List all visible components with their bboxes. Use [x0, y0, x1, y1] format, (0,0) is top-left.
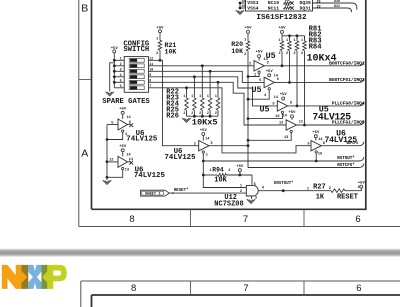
- svg-text:6: 6: [355, 214, 360, 225]
- R21 label: [165, 42, 177, 49]
- U5 gate B pin14: [274, 74, 279, 78]
- U5C enable wire: [248, 114, 282, 119]
- VSS junction wire: [239, 3, 241, 9]
- NXP logo P counter (white): [53, 271, 61, 276]
- 74LV125 label (gate2): [134, 172, 166, 180]
- junction VSS4: [239, 7, 242, 10]
- svg-text:2: 2: [293, 52, 295, 56]
- svg-text:D30: D30: [334, 0, 340, 3]
- wire ERSTOUT*: [258, 190, 331, 192]
- wire RESET* to U12: [169, 192, 246, 194]
- NXP logo X blue body with notches: [28, 265, 41, 289]
- svg-text:VSS4: VSS4: [247, 5, 258, 11]
- svg-text:2: 2: [191, 111, 193, 115]
- R21 pin 2: [156, 52, 158, 56]
- spare gates ground rail: [106, 125, 108, 181]
- svg-text:+5V: +5V: [256, 51, 264, 55]
- buffer U5A: [254, 61, 264, 71]
- svg-text:13: 13: [284, 136, 288, 140]
- R20 top wire: [247, 33, 249, 41]
- svg-text:R84: R84: [309, 44, 323, 52]
- page separator gray band: [0, 248, 400, 257]
- +5V for R27: [358, 181, 366, 188]
- buffer U6 gate2: [118, 156, 128, 167]
- net label RSTOUT*: [337, 156, 355, 161]
- wire enable rail vertical: [247, 51, 249, 168]
- spare branch arrow: [106, 92, 114, 96]
- svg-text:IS61SF12832: IS61SF12832: [256, 14, 307, 22]
- junction U5C enable: [247, 117, 250, 120]
- page1 outer thin border (left): [78, 0, 80, 227]
- junction U6g3 output: [247, 144, 250, 147]
- svg-text:10K: 10K: [284, 4, 289, 7]
- resistor R94: [218, 173, 227, 176]
- svg-text:2: 2: [120, 62, 122, 66]
- resistor R21: [158, 40, 162, 50]
- resistors R22-R26 bodies and taps: [183, 64, 219, 116]
- VSS3 pin wire: [240, 2, 246, 4]
- IC pin name VSS3: [247, 0, 258, 6]
- svg-text:1: 1: [207, 94, 209, 98]
- svg-text:1: 1: [215, 94, 217, 98]
- svg-text:+5V: +5V: [278, 27, 286, 31]
- page2 outer thin border (top): [81, 280, 400, 282]
- net label RSTCFG*: [337, 163, 355, 168]
- U12 ground wire: [251, 196, 253, 199]
- resistor R27: [331, 189, 345, 193]
- svg-text:1: 1: [278, 39, 280, 43]
- U6 gate3 pin14: [205, 137, 210, 141]
- page2 column label 7: [243, 283, 248, 294]
- label SWITCH: [123, 46, 149, 54]
- svg-text:6: 6: [356, 283, 361, 294]
- wire RSTOUT*: [203, 157, 364, 161]
- svg-text:10K: 10K: [231, 48, 243, 55]
- row label B: [81, 2, 88, 14]
- wire row4 to U5C input: [153, 77, 277, 106]
- IC name IS61SF12832: [256, 14, 307, 22]
- U5D pin11: [299, 121, 303, 125]
- buffer U5D: [286, 120, 296, 130]
- junction U6g1 enable: [106, 138, 109, 141]
- svg-text:1: 1: [199, 94, 201, 98]
- SHEET 1 flag: [141, 190, 170, 196]
- svg-text:PLLCFG1/IRQ5: PLLCFG1/IRQ5: [332, 120, 365, 126]
- U12 pin4: [262, 186, 265, 190]
- page1 column tick 7|6: [303, 209, 305, 226]
- RESET* label tick: [172, 192, 174, 194]
- R81-R84 top wire: [282, 33, 305, 38]
- labels R81-R84: [309, 26, 323, 52]
- label SPARE GATES: [102, 98, 150, 106]
- page2 inner thick border (left): [91, 295, 93, 307]
- U6g2 enable wire: [107, 170, 123, 178]
- U5 74LV125 label: [312, 104, 351, 122]
- svg-text:RSTOUT*: RSTOUT*: [337, 156, 355, 161]
- R27 pin1: [307, 187, 309, 191]
- svg-text:29: 29: [316, 5, 320, 9]
- U6g2 pin12: [109, 159, 113, 163]
- buffer U5C: [277, 101, 287, 111]
- U5 label (gate A): [266, 51, 276, 61]
- net label PLLCFG0/IRQ4: [332, 100, 365, 106]
- U5 label (gate B): [251, 85, 261, 95]
- svg-text:PLLCFG0/IRQ4: PLLCFG0/IRQ4: [332, 100, 365, 106]
- U5 label (gate C): [259, 105, 269, 115]
- svg-text:U5: U5: [259, 105, 269, 115]
- svg-text:SWITCH: SWITCH: [123, 46, 149, 54]
- page2 column tick 8|7: [190, 281, 192, 295]
- NXP logo N arrow showing through X (orange chevron): [21, 271, 27, 284]
- svg-text:VSS3: VSS3: [247, 0, 258, 6]
- svg-text:A: A: [81, 148, 88, 160]
- U5 gate D +5V: [288, 111, 296, 120]
- page1 outer thin border (bottom): [79, 226, 400, 228]
- labels R22-R26: [166, 89, 179, 121]
- U5C pin10: [275, 115, 279, 119]
- U12 gnd pin3: [255, 197, 257, 201]
- U6 gate2 pin14: [126, 153, 131, 157]
- NXP logo letter N (orange): [2, 265, 21, 289]
- U6g3 output wire: [209, 145, 248, 147]
- U12 pin2: [240, 190, 242, 194]
- U6g4 pin10: [318, 153, 322, 157]
- svg-text:DQ31: DQ31: [300, 5, 311, 11]
- VSS pin numbers: [242, 0, 246, 8]
- net label BOOTCFG1/IRQ3: [329, 77, 365, 83]
- R27 label: [313, 183, 326, 191]
- svg-text:1: 1: [240, 184, 242, 188]
- svg-text:RESET*: RESET*: [174, 188, 189, 193]
- U5D pin13: [284, 136, 288, 140]
- buffer U6 gate3: [199, 141, 209, 151]
- DQ31 pin number 29: [316, 5, 320, 9]
- R20 pin 2: [244, 53, 246, 57]
- NXP logo P bar showing through X (lime chevron): [42, 271, 47, 283]
- junction U5A enable: [247, 75, 250, 78]
- svg-text:1: 1: [286, 39, 288, 43]
- junction U6g2 enable: [106, 176, 109, 179]
- svg-text:1: 1: [307, 187, 309, 191]
- junction R94 +5V: [239, 174, 242, 177]
- svg-text:5: 5: [120, 79, 122, 83]
- junction VSS3: [239, 2, 242, 5]
- R94 wire left: [203, 174, 217, 176]
- svg-text:1: 1: [120, 57, 122, 61]
- U5 gate C pin14: [274, 96, 279, 100]
- U6g1 output X: [128, 123, 134, 127]
- U5B pin6: [277, 78, 279, 82]
- switch rockers: [129, 58, 144, 89]
- svg-text:12: 12: [279, 122, 283, 126]
- NXP logo P (lime): [47, 265, 66, 289]
- net label WDPCFG: [347, 141, 359, 145]
- resistor R20: [246, 41, 250, 51]
- svg-text:NC10: NC10: [268, 0, 279, 6]
- svg-text:NC11: NC11: [268, 5, 279, 11]
- svg-text:4: 4: [120, 73, 122, 77]
- svg-text:+5V: +5V: [266, 70, 274, 74]
- svg-text:1: 1: [244, 38, 246, 42]
- U5 gate B +5V: [266, 70, 274, 77]
- svg-text:11: 11: [149, 62, 153, 66]
- svg-text:3: 3: [255, 197, 257, 201]
- svg-text:RESET: RESET: [337, 193, 358, 201]
- switch bus junctions: [113, 59, 116, 84]
- junction R94 left: [202, 174, 205, 177]
- svg-text:74LV125: 74LV125: [325, 136, 358, 145]
- U6g3 enable wire: [203, 153, 246, 187]
- svg-text:10K: 10K: [214, 177, 227, 185]
- junction RSTOUT-U6g4en: [315, 160, 318, 163]
- switch S1 box: [124, 57, 148, 93]
- svg-text:R27: R27: [313, 183, 326, 191]
- svg-text:1: 1: [156, 38, 158, 42]
- wire row5 to U5D input: [153, 82, 286, 125]
- U6g4 pin9: [307, 142, 309, 146]
- net label D30: [334, 0, 340, 3]
- svg-text:2: 2: [228, 169, 230, 173]
- svg-text:2: 2: [329, 187, 331, 191]
- wire RSTCFG*: [248, 164, 364, 168]
- svg-text:2: 2: [240, 190, 242, 194]
- +5V for R81-R84: [278, 27, 286, 34]
- svg-text:1K: 1K: [316, 193, 325, 201]
- svg-text:11: 11: [299, 121, 303, 125]
- svg-text:2: 2: [249, 62, 251, 66]
- U6 gate4 pin14: [318, 138, 323, 142]
- svg-text:3: 3: [267, 61, 269, 65]
- U5D pin12: [279, 122, 283, 126]
- buffer U6 gate1: [118, 119, 128, 130]
- net label PLLCFG1/IRQ5: [332, 120, 365, 126]
- junction U6g2 input: [106, 160, 109, 163]
- label 10Kx5: [192, 117, 218, 127]
- page2 column tick 7|6: [303, 281, 305, 295]
- R21 bottom wire: [159, 50, 161, 60]
- U6 74LV125 label (gate4): [325, 129, 358, 145]
- svg-text:7: 7: [243, 283, 248, 294]
- U6g1 input wire: [107, 124, 118, 126]
- svg-text:1: 1: [254, 74, 256, 78]
- U12 pin5: [254, 183, 256, 187]
- svg-text:BOOTCFG1/IRQ3: BOOTCFG1/IRQ3: [329, 77, 365, 83]
- R22-R26 bottom common wire: [187, 115, 219, 117]
- spare gates ground: [103, 180, 111, 184]
- svg-text:8: 8: [131, 283, 136, 294]
- U12 pin1: [240, 184, 242, 188]
- R94 value 10K: [214, 177, 227, 185]
- U5B enable wire: [248, 90, 269, 99]
- svg-text:2: 2: [286, 52, 288, 56]
- R20 pin 1: [244, 38, 246, 42]
- svg-text:2: 2: [183, 111, 185, 115]
- buffer U6 gate4: [311, 141, 321, 151]
- svg-text:2: 2: [207, 111, 209, 115]
- U6g4 enable wire: [315, 153, 317, 161]
- U5C pin9: [272, 102, 274, 106]
- svg-text:8: 8: [129, 214, 134, 225]
- R27 value 1K: [316, 193, 325, 201]
- svg-text:9: 9: [272, 102, 274, 106]
- svg-text:SPARE GATES: SPARE GATES: [102, 98, 150, 106]
- U5B enable bubble: [268, 88, 270, 90]
- svg-text:2: 2: [358, 185, 360, 189]
- page1 column tick 8|7: [190, 209, 192, 226]
- U6g3 pin3: [210, 142, 212, 146]
- wire row3 to U5B input: [153, 71, 264, 82]
- U5B pin5: [259, 79, 261, 83]
- svg-text:30: 30: [242, 0, 246, 3]
- U6g2 pin13: [125, 169, 129, 173]
- IC pin name NC11: [268, 5, 279, 11]
- IC pin name VSS4: [247, 5, 258, 11]
- U5 gate D pin14: [282, 114, 287, 118]
- svg-text:6: 6: [277, 78, 279, 82]
- R94 wire right: [227, 174, 253, 176]
- VSS4 pin wire: [240, 7, 246, 9]
- page1 row divider A/B: [79, 79, 92, 81]
- label 10Kx4: [307, 54, 337, 65]
- svg-text:+5V: +5V: [244, 27, 252, 31]
- wire row2 to U5A input: [153, 65, 254, 67]
- IC pin name DQ31: [300, 5, 311, 11]
- 74LV125 label (gate3): [164, 154, 196, 162]
- U5 gate C +5V: [280, 93, 288, 101]
- svg-text:D31: D31: [334, 4, 340, 8]
- U5C enable bubble: [281, 111, 283, 113]
- U6 label (gate1): [136, 130, 145, 138]
- svg-text:7: 7: [149, 84, 151, 88]
- ground for VSS pins: [236, 10, 244, 14]
- svg-text:SHEET 1: SHEET 1: [145, 193, 161, 197]
- +5V for R21: [156, 27, 164, 33]
- svg-text:RSTCFG*: RSTCFG*: [337, 163, 355, 168]
- switch right pin stubs: [149, 57, 154, 89]
- svg-text:9: 9: [149, 73, 151, 77]
- +5V for R20: [244, 27, 252, 34]
- svg-text:2: 2: [301, 52, 303, 56]
- svg-text:10: 10: [149, 68, 153, 72]
- U5 gate A +5V: [256, 51, 264, 61]
- R94 label: [212, 166, 224, 173]
- IC pin name DQ30: [300, 0, 311, 6]
- svg-text:74LV125: 74LV125: [134, 172, 166, 180]
- svg-text:10K: 10K: [165, 49, 177, 56]
- row label A: [81, 148, 88, 160]
- svg-text:+5V: +5V: [288, 111, 296, 115]
- U6 gate1 pin14: [126, 116, 131, 120]
- wire BOOTCFG1/IRQ3: [274, 78, 364, 82]
- U12 label: [224, 194, 237, 202]
- U5 gate A pin14: [264, 58, 269, 62]
- ground for R22-R26: [182, 118, 190, 122]
- R21 value 10K: [165, 49, 177, 56]
- svg-text:1: 1: [301, 39, 303, 43]
- svg-text:1: 1: [183, 94, 185, 98]
- U6g3 pin2: [194, 143, 196, 147]
- NC11 resistor 10K with X: [284, 4, 294, 10]
- U6g4 pin8: [323, 142, 325, 146]
- U6 label (gate3): [174, 148, 183, 156]
- U12 ground: [247, 199, 255, 203]
- svg-text:10Kx5: 10Kx5: [192, 117, 218, 127]
- page2 inner thick border (top): [92, 294, 400, 296]
- column label 6: [355, 214, 360, 225]
- U6g2 enable bubble: [122, 167, 124, 169]
- svg-text:1: 1: [206, 153, 208, 157]
- U6g1 pin6: [129, 121, 131, 125]
- svg-text:40: 40: [242, 4, 246, 8]
- U6g2 input wire: [107, 161, 118, 163]
- svg-text:2: 2: [194, 143, 196, 147]
- U6 spare gate2 +5V: [119, 145, 127, 156]
- R21 top wire: [159, 33, 161, 40]
- svg-text:1: 1: [293, 39, 295, 43]
- U6g1 enable bubble: [122, 130, 124, 132]
- svg-text:9: 9: [307, 142, 309, 146]
- page1 inner thick border (left): [91, 0, 93, 209]
- U6g1 pin4: [125, 133, 128, 137]
- label CONFIG: [123, 40, 149, 48]
- U5A enable bubble: [258, 71, 260, 73]
- net label BOOTCFG0/IRQ2: [329, 60, 365, 66]
- +5V bus vertical: [113, 53, 115, 88]
- wire row1 to U6g3 input: [153, 60, 199, 145]
- R94 pin2: [228, 169, 230, 173]
- ERSTOUT junction: [282, 189, 285, 192]
- SHEET 1 text: [145, 193, 161, 197]
- +5V for switch bus: [111, 47, 119, 53]
- junction U5B enable: [247, 98, 250, 101]
- U6g2 pin11: [129, 158, 133, 162]
- svg-text:28: 28: [316, 0, 320, 4]
- U6g2 output X: [128, 161, 134, 165]
- NC10 resistor 10K with X: [284, 0, 294, 5]
- U5A pin1: [254, 74, 256, 78]
- junction U5D enable: [247, 139, 250, 142]
- wire BOOTCFG0/IRQ2: [264, 62, 364, 66]
- U6 gate4 +5V: [312, 131, 320, 140]
- buffer U5B: [264, 77, 274, 87]
- R20 value 10K: [231, 48, 243, 55]
- R94 pin1: [209, 169, 211, 173]
- U6g1 pin5: [111, 121, 113, 125]
- junction R21-row1: [159, 59, 162, 62]
- svg-text:B: B: [81, 2, 88, 14]
- svg-text:2: 2: [156, 52, 158, 56]
- wire PLLCFG0/IRQ4: [288, 102, 364, 106]
- 74LV125 label (gate1): [126, 136, 158, 144]
- svg-text:R94: R94: [212, 166, 224, 173]
- R27 +5V pin2: [358, 185, 360, 189]
- R27 pin2: [329, 187, 331, 191]
- junction RSTOUT-U6g3en: [202, 160, 205, 163]
- U5A pin3: [267, 61, 269, 65]
- page2 outer thin border (left): [80, 281, 82, 307]
- +5V for R94 net: [236, 165, 244, 175]
- page2 column label 6: [356, 283, 361, 294]
- IC U3 IS61SF12832 box: [246, 0, 313, 11]
- svg-text:8: 8: [149, 79, 151, 83]
- U5D enable wire: [248, 133, 291, 141]
- page2 column label 8: [131, 283, 136, 294]
- svg-text:6: 6: [120, 84, 122, 88]
- net label D31: [334, 4, 340, 8]
- svg-text:R26: R26: [166, 113, 179, 121]
- U6g1 enable wire: [107, 132, 123, 139]
- R27 right wire: [345, 188, 361, 191]
